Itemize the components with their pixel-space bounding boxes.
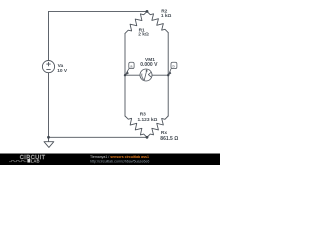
junction dot ground node — [47, 136, 50, 139]
junction dot top node — [146, 10, 149, 13]
svg-text:LAB: LAB — [31, 158, 40, 163]
node b tag — [168, 69, 171, 76]
svg-text:http://circuitlab.com/c/h6av/5: http://circuitlab.com/c/h6av/5uaze6e6 — [90, 160, 149, 164]
svg-text:861.5 Ω: 861.5 Ω — [160, 136, 178, 142]
wire source bottom vertical — [48, 73, 50, 138]
svg-text:2 kΩ: 2 kΩ — [138, 32, 149, 38]
svg-text:Tlemanya1 / sensors circuitlab: Tlemanya1 / sensors circuitlab ass1 — [90, 155, 149, 159]
voltmeter VM1 — [140, 69, 152, 81]
junction dot bottom node — [146, 136, 149, 139]
ground — [48, 137, 50, 141]
wire right rail — [167, 33, 169, 116]
wire left rail — [124, 33, 126, 116]
node a tag — [125, 69, 129, 76]
resistor R3 — [125, 116, 147, 137]
voltage source Va — [42, 61, 54, 73]
resistor R2 — [147, 11, 168, 32]
svg-text:1 kΩ: 1 kΩ — [161, 13, 172, 19]
wire voltmeter branch — [125, 74, 168, 76]
svg-text:R3: R3 — [140, 112, 146, 118]
footer bar — [0, 154, 220, 166]
svg-text:0.000 V: 0.000 V — [140, 62, 158, 68]
wire top horizontal and source top — [49, 11, 148, 60]
svg-text:1.123 kΩ: 1.123 kΩ — [138, 117, 158, 123]
resistor R1 — [125, 11, 147, 33]
resistor Rx — [147, 116, 168, 137]
svg-text:10 V: 10 V — [57, 68, 68, 74]
wire bottom horizontal — [49, 136, 148, 138]
